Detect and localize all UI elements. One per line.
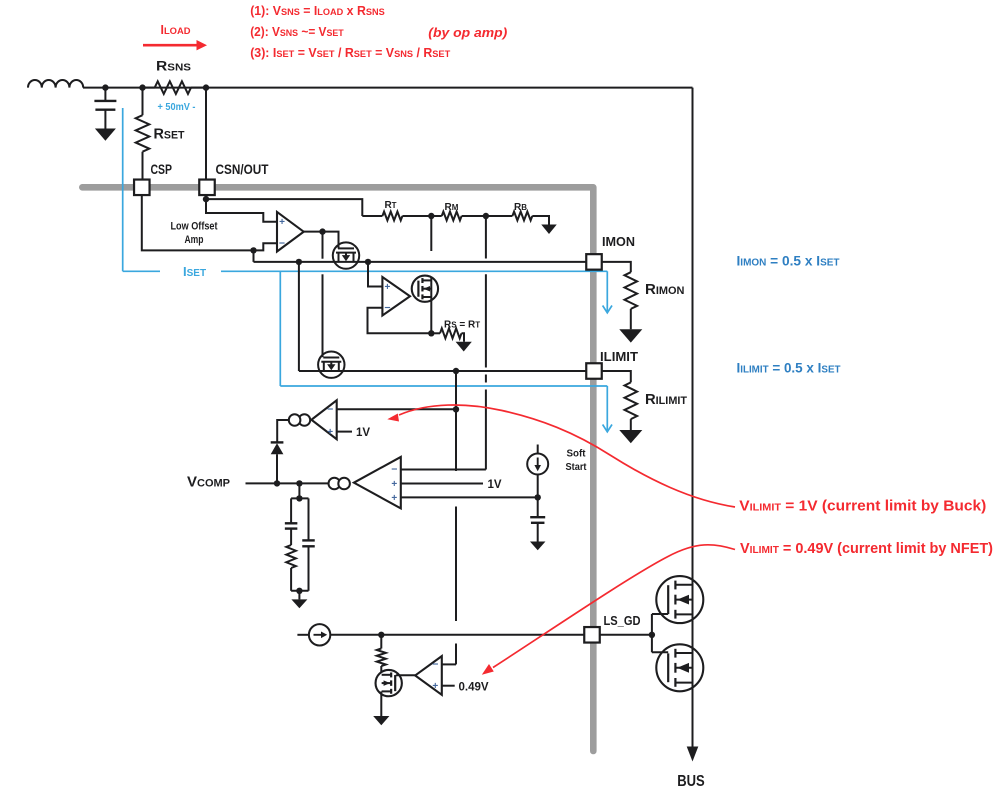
wire comp2 plus stub	[442, 685, 455, 687]
wire tap to U2 plus	[368, 262, 382, 287]
wire RSNS left lead	[143, 87, 155, 89]
label equation 3 (red)	[250, 46, 450, 60]
wire LS_GD to gates	[600, 634, 652, 636]
ground input cap	[95, 129, 116, 141]
wire comp1 plus stub	[337, 431, 352, 433]
svg-text:CSN/OUT: CSN/OUT	[216, 162, 270, 177]
pin IMON	[586, 254, 602, 270]
node junction diode/VCOMP	[274, 480, 280, 486]
wire tap down to comparators	[455, 371, 457, 409]
wire CSN branch to RT row	[206, 199, 362, 216]
svg-text:VILIMIT = 0.49V (current limit: VILIMIT = 0.49V (current limit by NFET)	[740, 540, 993, 557]
wire U1 out to mirror2 gate	[322, 232, 324, 358]
svg-text:Amp: Amp	[185, 234, 204, 246]
svg-text:+: +	[384, 282, 390, 293]
wire ISET branch horizontal (blue)	[280, 385, 607, 387]
pin LS_GD	[584, 627, 600, 643]
wire VCOMP	[246, 482, 329, 484]
ground RS	[456, 342, 472, 352]
wire comp tap down	[455, 409, 457, 664]
svg-text:ILIMIT: ILIMIT	[600, 350, 638, 364]
wire soft start down	[537, 475, 539, 518]
node junction CSP wire	[250, 247, 256, 253]
label equation 2 (red)	[250, 25, 344, 39]
wire BUS vertical	[692, 88, 694, 748]
svg-text:IIMON = 0.5 x ISET: IIMON = 0.5 x ISET	[737, 253, 841, 269]
label 1V lower	[488, 479, 502, 491]
node junction RS	[428, 330, 434, 336]
label IIMON eq (blue)	[737, 253, 841, 269]
red leader curve to 0.49V comparator	[482, 545, 735, 675]
node junction NFET gates	[649, 632, 655, 638]
resistor RT	[382, 212, 402, 221]
svg-text:RS = RT: RS = RT	[444, 320, 480, 331]
wire gate split	[652, 614, 668, 652]
label IMON	[602, 235, 635, 249]
label RB	[514, 202, 527, 213]
label RSET	[154, 126, 185, 143]
node junction RSET top	[139, 84, 145, 90]
label CSP	[151, 162, 173, 177]
ground FET3	[373, 716, 389, 725]
comparator 1V output bubbles	[289, 414, 310, 426]
svg-text:−: −	[391, 464, 397, 476]
node junction CSN inner	[203, 196, 209, 202]
resistor RSET	[136, 88, 150, 180]
transistor Q1 NFET	[656, 576, 703, 623]
svg-text:RIMON: RIMON	[645, 281, 685, 298]
IC boundary bus (gray)	[82, 187, 593, 751]
error amp EA1	[354, 457, 401, 509]
label ISET (blue)	[183, 264, 206, 279]
wire RT-RM	[402, 215, 441, 217]
wire U1 output	[304, 231, 323, 233]
svg-text:+: +	[432, 681, 438, 692]
resistor RILIMIT	[625, 382, 638, 419]
wire comp network top	[298, 483, 300, 498]
inductor L	[28, 80, 83, 88]
ground comp network	[291, 599, 307, 608]
label Low Offset Amp	[171, 221, 218, 247]
comparator 0.49V	[415, 656, 442, 695]
svg-text:LS_GD: LS_GD	[604, 614, 641, 628]
wire resistor to FET3	[380, 666, 382, 672]
error amp EA1 output bubbles	[329, 478, 350, 490]
label RT	[384, 200, 396, 211]
wire comp1 out to diode	[277, 420, 289, 442]
wire RT/RM junction down	[430, 216, 432, 333]
ground RB	[541, 225, 557, 235]
wire IMON rail	[254, 250, 587, 262]
current mirror M1	[333, 242, 359, 268]
label by op amp (red italic)	[428, 25, 507, 40]
svg-text:(2): VSNS ~= VSET: (2): VSNS ~= VSET	[250, 25, 344, 39]
wire RM/RB junction down	[485, 216, 487, 470]
wire riser to ILIMIT rail	[298, 262, 300, 371]
node junction comp1 tap	[453, 406, 459, 412]
svg-text:ILOAD: ILOAD	[161, 23, 191, 37]
wire ISET horizontal (blue)	[123, 270, 608, 272]
resistor RIMON	[625, 272, 638, 309]
current source gate drive	[297, 624, 330, 645]
current mirror M2	[318, 352, 344, 378]
svg-text:Low Offset: Low Offset	[171, 221, 218, 233]
wire comp1 minus	[337, 408, 456, 410]
node junction opamp2 tap	[365, 259, 371, 265]
ground soft start	[530, 542, 546, 551]
wire LS_GD rail	[330, 634, 584, 636]
label VCOMP	[187, 474, 230, 491]
wire FET3 gate	[396, 674, 415, 676]
blue arrow into RIMON	[603, 271, 612, 313]
diode D1	[271, 442, 284, 483]
wire EA1 minus	[401, 469, 486, 471]
label RSNS	[156, 59, 191, 74]
ground RIMON	[619, 329, 642, 342]
label RIMON	[645, 281, 685, 298]
svg-text:Start: Start	[566, 461, 587, 473]
svg-text:1V: 1V	[356, 427, 370, 439]
wire ss cap to ground	[537, 523, 539, 542]
svg-text:+: +	[279, 217, 285, 228]
label ILIMIT	[600, 350, 638, 364]
svg-text:VCOMP: VCOMP	[187, 474, 230, 491]
blue arrow into RILIMIT	[603, 386, 612, 432]
label CSN/OUT	[216, 162, 270, 177]
wire RB to ground	[532, 216, 549, 225]
wire EA1 plus soft start	[401, 496, 538, 498]
red leader curve to 1V comparator	[387, 405, 735, 507]
node junction gate resistor	[378, 632, 384, 638]
pin ILIMIT	[586, 363, 602, 379]
svg-text:RB: RB	[514, 202, 527, 213]
svg-text:−: −	[279, 237, 285, 249]
svg-text:+ 50mV -: + 50mV -	[158, 102, 196, 113]
node junction at input cap	[102, 84, 108, 90]
wire CSP to amp minus	[142, 195, 277, 250]
svg-text:VILIMIT = 1V (current limit by: VILIMIT = 1V (current limit by Buck)	[739, 498, 986, 515]
wire comp net to ground	[298, 591, 300, 600]
compensation network	[285, 498, 315, 590]
svg-text:RM: RM	[445, 202, 459, 213]
wire top rail	[83, 87, 693, 89]
wire EA1 plus 1V stub	[401, 483, 483, 485]
wire RM-RB	[462, 215, 513, 217]
op-amp U2	[382, 277, 410, 316]
node junction comp net bottom	[296, 588, 302, 594]
wire CSN down	[205, 88, 207, 180]
svg-text:CSP: CSP	[151, 162, 173, 177]
wire U2 feedback	[368, 308, 432, 334]
transistor FET2	[412, 276, 438, 302]
node junction RT/RM	[428, 213, 434, 219]
transistor Q2 NFET	[656, 644, 703, 691]
label BUS	[677, 773, 705, 790]
svg-text:0.49V: 0.49V	[459, 681, 489, 693]
ground RILIMIT	[619, 430, 642, 443]
label equation 1 (red)	[250, 4, 384, 18]
resistor RB	[512, 212, 532, 221]
node junction CSN branch	[203, 84, 209, 90]
svg-text:ISET: ISET	[183, 264, 206, 279]
svg-text:(1): VSNS = ILOAD x RSNS: (1): VSNS = ILOAD x RSNS	[250, 4, 384, 18]
label IILIMIT eq (blue)	[737, 360, 842, 376]
label LS_GD	[604, 614, 641, 628]
wire RT lead	[362, 215, 382, 217]
wire ISET branch down (blue)	[279, 271, 281, 386]
svg-text:(3): ISET = VSET / RSET = VSNS: (3): ISET = VSET / RSET = VSNS / RSET	[250, 46, 450, 60]
resistor RS	[440, 328, 462, 338]
current source soft start	[527, 445, 548, 475]
label +50mV (blue)	[158, 102, 196, 113]
svg-text:IILIMIT = 0.5 x ISET: IILIMIT = 0.5 x ISET	[737, 360, 842, 376]
label RM	[445, 202, 459, 213]
svg-text:−: −	[432, 659, 438, 671]
op-amp U1 low offset amp	[277, 212, 304, 252]
label ILOAD (red)	[161, 23, 191, 37]
svg-text:+: +	[391, 493, 397, 504]
arrow ILOAD (red)	[143, 40, 207, 50]
svg-text:−: −	[384, 302, 390, 314]
svg-text:BUS: BUS	[677, 773, 705, 790]
svg-text:1V: 1V	[488, 479, 502, 491]
pin CSN/OUT	[199, 180, 215, 196]
capacitor input	[94, 88, 116, 129]
wire RIMON to ground	[630, 309, 632, 329]
node junction IMON/ILIMIT riser	[296, 259, 302, 265]
wire comp2 minus step	[442, 663, 456, 665]
wire ISET vertical riser (blue)	[122, 108, 124, 271]
svg-text:−: −	[327, 404, 333, 416]
comparator 1V buck	[311, 400, 336, 439]
resistor RSNS	[155, 81, 191, 94]
svg-text:RSNS: RSNS	[156, 59, 191, 74]
wire CSN to amp plus	[205, 195, 207, 199]
wire ILIMIT rail	[299, 370, 586, 372]
wire CSN to amp plus step	[206, 199, 277, 222]
label Soft Start	[566, 448, 587, 474]
wire RS to ground	[462, 333, 465, 342]
wire ILIMIT to RILIMIT	[602, 371, 631, 382]
svg-text:RILIMIT: RILIMIT	[645, 391, 687, 408]
capacitor soft start	[530, 517, 545, 523]
wire RS lead	[431, 332, 440, 334]
node junction RM/RB	[483, 213, 489, 219]
svg-text:Soft: Soft	[567, 448, 586, 460]
label 0.49V	[459, 681, 489, 693]
resistor gate	[377, 635, 386, 666]
node junction ILIMIT tap	[453, 368, 459, 374]
svg-text:+: +	[327, 427, 333, 438]
svg-text:RT: RT	[384, 200, 396, 211]
node junction compnet/VCOMP	[296, 480, 302, 486]
label RILIMIT	[645, 391, 687, 408]
svg-text:+: +	[391, 479, 397, 490]
node junction U1 output	[319, 228, 325, 234]
wire RILIMIT to ground	[630, 419, 632, 430]
wire IMON to RIMON	[602, 262, 631, 272]
wire U1 out to mirror1 gate	[323, 232, 339, 249]
svg-text:(by op amp): (by op amp)	[428, 25, 507, 40]
wire RSNS right lead	[191, 87, 206, 89]
node junction comp net top	[296, 495, 302, 501]
label 1V upper	[356, 427, 370, 439]
svg-text:RSET: RSET	[154, 126, 185, 143]
transistor FET3	[376, 670, 402, 696]
pin CSP	[134, 180, 150, 196]
resistor RM	[442, 212, 462, 221]
label VILIMIT 0.49V (red)	[740, 540, 993, 557]
label VILIMIT 1V (red)	[739, 498, 986, 515]
arrow BUS	[687, 747, 699, 762]
label RS = RT	[444, 320, 480, 331]
node junction soft start	[535, 494, 541, 500]
svg-text:IMON: IMON	[602, 235, 635, 249]
wire FET3 source to ground	[380, 691, 382, 716]
